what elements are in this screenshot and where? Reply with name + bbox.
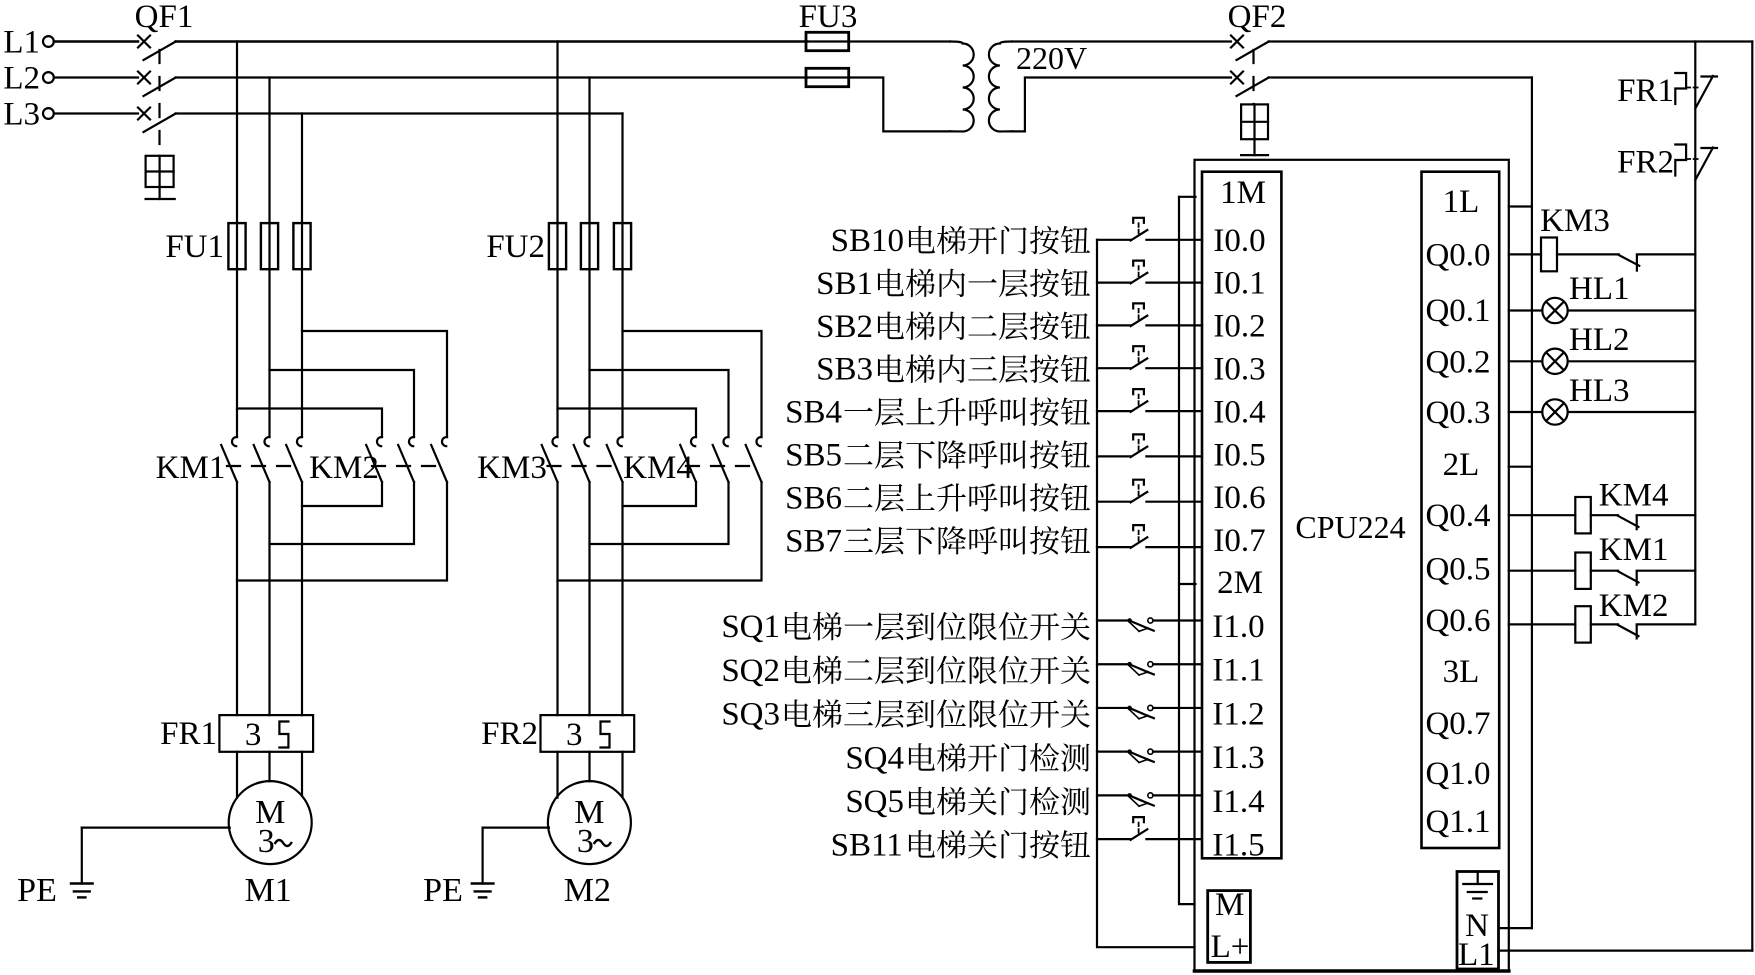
wire KM4 crossover returns: [558, 482, 762, 581]
svg-text:3: 3: [245, 717, 262, 753]
svg-text:SQ1: SQ1: [721, 609, 780, 645]
svg-text:2L: 2L: [1443, 447, 1480, 483]
svg-text:Q0.4: Q0.4: [1425, 498, 1490, 534]
label SQ1: [721, 609, 1090, 645]
svg-text:L2: L2: [3, 61, 40, 97]
breaker QF2: [1228, 0, 1287, 155]
pushbutton SB3 (input I0.3): [1097, 346, 1202, 369]
lamp HL3 (Q0.3): [1509, 373, 1696, 425]
wire FR2 to motor M2: [556, 752, 558, 798]
svg-text:Q0.6: Q0.6: [1425, 603, 1490, 639]
svg-text:SB11: SB11: [831, 827, 903, 863]
svg-text:QF1: QF1: [135, 0, 194, 35]
label SB6: [785, 480, 1090, 516]
svg-text:Q1.0: Q1.0: [1425, 756, 1490, 792]
motor M1: [229, 781, 312, 909]
transformer T secondary winding: [989, 42, 1012, 132]
svg-text:KM2: KM2: [1599, 588, 1669, 624]
svg-text:SB7: SB7: [785, 523, 842, 559]
contactor coil KM2 with NC contact (Q0.6): [1509, 588, 1696, 643]
fuse FU2: [486, 223, 631, 269]
wire right phase vertical: [1751, 42, 1753, 951]
PLC N/L1 terminal box: [1457, 872, 1499, 974]
svg-text:1M: 1M: [1220, 175, 1266, 211]
label SB7: [785, 523, 1090, 559]
pushbutton SB6 (input I0.6): [1097, 480, 1202, 503]
svg-text:FU1: FU1: [165, 229, 224, 265]
svg-text:FU3: FU3: [799, 0, 858, 35]
svg-text:3L: 3L: [1443, 654, 1480, 690]
contactor KM1 main contacts: [156, 437, 302, 486]
wire L3 bus QF1 to FU2: [176, 112, 623, 114]
node L2 terminal: [3, 61, 53, 97]
wire L2 bus QF1 to FU3: [176, 76, 807, 78]
svg-text:KM1: KM1: [1599, 532, 1669, 568]
svg-text:SB5: SB5: [785, 438, 842, 474]
svg-text:KM3: KM3: [477, 450, 547, 486]
svg-text:FR1: FR1: [160, 716, 217, 752]
svg-text:2M: 2M: [1217, 565, 1263, 601]
svg-text:I0.4: I0.4: [1213, 394, 1265, 430]
svg-text:Q0.3: Q0.3: [1425, 395, 1490, 431]
wire FU3 to transformer primary top: [807, 40, 950, 42]
svg-text:I1.4: I1.4: [1212, 784, 1264, 820]
limit switch SQ1 (input I1.0): [1097, 618, 1202, 631]
svg-text:SB1: SB1: [816, 266, 873, 302]
wire KM2 pole taps: [237, 331, 447, 437]
wire KM4 pole taps: [558, 331, 762, 437]
svg-text:KM4: KM4: [623, 450, 693, 486]
label SB2: [816, 309, 1090, 345]
svg-text:L+: L+: [1211, 929, 1250, 965]
svg-text:HL3: HL3: [1569, 373, 1630, 409]
label SB4: [785, 395, 1090, 431]
contactor coil KM3 (Q0.0): [1509, 203, 1619, 271]
pushbutton SB7 (input I0.7): [1097, 525, 1202, 548]
svg-text:HL2: HL2: [1569, 322, 1630, 358]
svg-text:FR2: FR2: [1617, 145, 1674, 181]
limit switch SQ2 (input I1.1): [1097, 662, 1202, 675]
svg-text:I1.1: I1.1: [1212, 653, 1264, 689]
svg-text:FR2: FR2: [481, 716, 538, 752]
lamp HL2 (Q0.2): [1509, 322, 1696, 374]
svg-text:Q1.1: Q1.1: [1425, 804, 1490, 840]
wire 1L tick: [1509, 205, 1532, 207]
wire 2L tick: [1509, 466, 1532, 468]
label SB3: [816, 352, 1090, 388]
svg-text:L1: L1: [1458, 937, 1495, 973]
svg-text:KM4: KM4: [1599, 478, 1669, 514]
svg-text:Q0.2: Q0.2: [1425, 345, 1490, 381]
pushbutton SB11 (input I1.5): [1097, 817, 1202, 840]
wire L2 to QF1: [54, 76, 138, 78]
ground PE motor M1: [17, 828, 230, 909]
svg-text:FR1: FR1: [1617, 73, 1674, 109]
node L3 terminal: [3, 97, 53, 133]
thermal contact FR1 (NC): [1617, 73, 1717, 109]
wire N terminal to supply vertical: [1499, 927, 1532, 929]
PLC input terminal box: [1202, 172, 1281, 859]
pushbutton SB1 (input I0.1): [1097, 261, 1202, 284]
contactor KM3 main contacts: [477, 437, 622, 486]
svg-text:I0.0: I0.0: [1213, 223, 1265, 259]
wire KM1 outputs to FR1: [236, 482, 238, 715]
label SB11: [831, 827, 1090, 863]
wire KM3 outputs to FR2: [556, 482, 558, 715]
pushbutton SB4 (input I0.4): [1097, 389, 1202, 412]
wire 2M tick: [1179, 583, 1196, 585]
svg-text:3: 3: [577, 823, 594, 860]
wire L3 drop through FU2 to KM3: [621, 114, 623, 438]
label SB1: [816, 266, 1090, 302]
contactor KM4 main contacts: [623, 437, 761, 486]
wire input common vertical (to L+): [1097, 240, 1195, 947]
thermal contact FR2 (NC): [1617, 145, 1717, 181]
motor M2: [548, 781, 631, 909]
svg-text:L1: L1: [3, 25, 40, 61]
wire L1 to QF1: [54, 40, 138, 43]
wire 1M tick: [1179, 196, 1196, 198]
wire FU3 to transformer primary bottom: [807, 78, 950, 132]
wire QF2 pole1 to right bus: [1269, 40, 1753, 42]
label SB5: [785, 438, 1090, 474]
PLC M/L+ terminal box: [1208, 887, 1251, 965]
svg-text:SQ4: SQ4: [845, 740, 904, 776]
limit switch SQ3 (input I1.2): [1097, 705, 1202, 718]
wire right bus FR branch: [1694, 42, 1696, 625]
svg-text:KM1: KM1: [156, 450, 226, 486]
label SQ2: [721, 653, 1090, 689]
wire neutral supply vertical: [1531, 78, 1533, 929]
svg-text:PE: PE: [17, 872, 57, 909]
ground PE motor M2: [423, 828, 549, 909]
pushbutton SB10 (input I0.0): [1097, 218, 1202, 241]
svg-text:I0.2: I0.2: [1213, 309, 1265, 345]
PLC output terminal box: [1422, 172, 1500, 848]
interlock contact on Q0.0 row (NC): [1619, 254, 1696, 270]
svg-text:SB6: SB6: [785, 480, 842, 516]
transformer T primary winding: [950, 42, 974, 132]
svg-text:I0.7: I0.7: [1213, 523, 1265, 559]
lamp HL1 (Q0.1): [1509, 271, 1696, 323]
thermal relay FR1 heaters: [160, 715, 313, 753]
label SB10: [831, 223, 1090, 259]
breaker QF1: [135, 0, 194, 199]
svg-text:Q0.1: Q0.1: [1425, 293, 1490, 329]
limit switch SQ5 (input I1.4): [1097, 793, 1202, 806]
svg-text:SQ3: SQ3: [721, 697, 780, 733]
wire L3 to QF1: [54, 112, 138, 114]
svg-text:I0.3: I0.3: [1213, 352, 1265, 388]
wire 1M/2M/M vertical: [1179, 197, 1195, 904]
wire L1 bus QF1 to FU3: [176, 40, 807, 43]
svg-text:M2: M2: [564, 872, 611, 909]
svg-text:M: M: [1215, 887, 1244, 923]
wire FR1 to motor M1: [236, 752, 238, 798]
label SQ4: [845, 740, 1089, 776]
node L1 terminal: [3, 25, 53, 61]
wire L2 drop through FU1 to KM1: [268, 78, 270, 438]
wire L3 drop through FU1 to KM1: [301, 114, 303, 438]
svg-text:3: 3: [258, 823, 275, 860]
svg-text:Q0.5: Q0.5: [1425, 552, 1490, 588]
svg-text:M1: M1: [245, 872, 292, 909]
fuse FU3: [799, 0, 858, 87]
contactor coil KM4 with NC contact (Q0.4): [1509, 478, 1696, 534]
svg-text:FU2: FU2: [486, 229, 545, 265]
wire secondary top to QF2: [1012, 40, 1231, 42]
wire QF2 pole2 to supply vertical: [1269, 76, 1532, 78]
PLC CPU224 outer box: [1195, 160, 1509, 971]
wire L2 drop through FU2 to KM3: [588, 78, 590, 438]
pushbutton SB2 (input I0.2): [1097, 303, 1202, 326]
svg-text:I0.6: I0.6: [1213, 480, 1265, 516]
pushbutton SB5 (input I0.5): [1097, 434, 1202, 457]
wire secondary bottom to QF2: [1012, 78, 1231, 132]
wire L1 terminal to right vertical: [1499, 949, 1753, 951]
wire L1 drop through FU2 to KM3: [556, 42, 558, 438]
limit switch SQ4 (input I1.3): [1097, 749, 1202, 762]
svg-text:PE: PE: [423, 872, 463, 909]
wire L1 drop through FU1 to KM1: [236, 42, 238, 438]
svg-text:SB2: SB2: [816, 309, 873, 345]
fuse FU1: [165, 223, 310, 269]
svg-text:1L: 1L: [1443, 184, 1480, 220]
svg-text:3: 3: [566, 717, 583, 753]
svg-text:I0.5: I0.5: [1213, 437, 1265, 473]
ground symbol in N/L1 box: [1463, 872, 1492, 899]
svg-text:I1.0: I1.0: [1212, 609, 1264, 645]
svg-text:220V: 220V: [1016, 40, 1087, 76]
contactor coil KM1 with NC contact (Q0.5): [1509, 532, 1696, 589]
svg-text:SB4: SB4: [785, 395, 842, 431]
svg-text:I1.5: I1.5: [1212, 828, 1264, 864]
svg-text:L3: L3: [3, 97, 40, 133]
svg-text:SQ2: SQ2: [721, 653, 780, 689]
svg-text:HL1: HL1: [1569, 271, 1630, 307]
svg-text:Q0.0: Q0.0: [1425, 238, 1490, 274]
svg-text:CPU224: CPU224: [1295, 509, 1405, 545]
label SQ3: [721, 697, 1090, 733]
thermal relay FR2 heaters: [481, 715, 634, 753]
svg-text:SQ5: SQ5: [845, 784, 904, 820]
svg-text:SB3: SB3: [816, 352, 873, 388]
label SQ5: [845, 784, 1089, 820]
svg-text:QF2: QF2: [1228, 0, 1287, 35]
svg-text:I0.1: I0.1: [1213, 266, 1265, 302]
svg-text:SB10: SB10: [831, 223, 904, 259]
wire KM2 crossover returns: [237, 482, 447, 581]
svg-text:Q0.7: Q0.7: [1425, 706, 1490, 742]
svg-text:I1.2: I1.2: [1212, 696, 1264, 732]
svg-text:KM2: KM2: [309, 450, 379, 486]
svg-text:I1.3: I1.3: [1212, 740, 1264, 776]
contactor KM2 main contacts: [309, 437, 447, 486]
svg-text:KM3: KM3: [1540, 203, 1610, 239]
